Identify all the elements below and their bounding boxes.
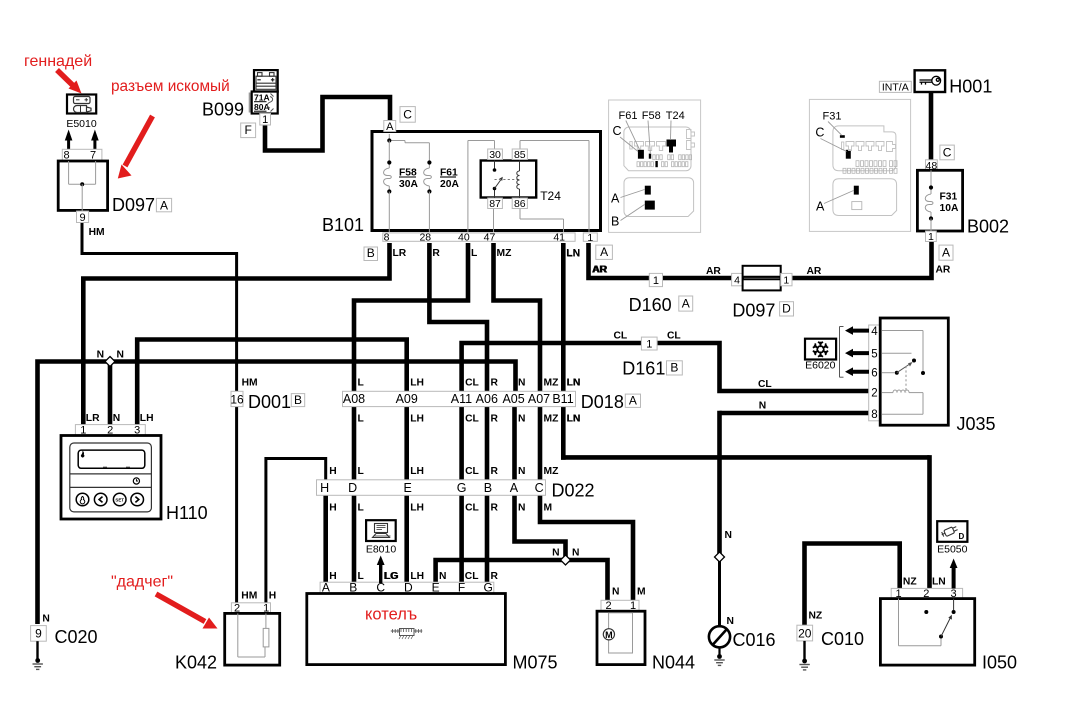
svg-text:D018: D018 bbox=[581, 392, 624, 412]
wire N J035 pin8 - C016 bbox=[720, 411, 872, 416]
thermostat H110 bbox=[75, 425, 145, 436]
wire HM D097 pin9 - D001 pin16 - K042 pin2 bbox=[82, 221, 237, 604]
wire L B101 pin40 to D001 pin A08 bbox=[354, 243, 468, 394]
svg-text:B: B bbox=[367, 246, 375, 260]
svg-text:B: B bbox=[484, 481, 492, 495]
svg-text:C020: C020 bbox=[55, 627, 98, 647]
svg-text:30: 30 bbox=[489, 149, 501, 161]
svg-text:80A: 80A bbox=[254, 102, 270, 112]
wire LR B101 pin8 to H110 pin1 bbox=[83, 243, 389, 427]
svg-text:M: M bbox=[637, 587, 646, 598]
svg-text:D: D bbox=[782, 302, 791, 316]
svg-text:LN: LN bbox=[567, 249, 581, 260]
svg-text:N044: N044 bbox=[652, 653, 695, 673]
svg-text:A: A bbox=[816, 200, 825, 214]
svg-text:M: M bbox=[544, 503, 553, 514]
svg-text:9: 9 bbox=[79, 212, 85, 224]
pin A top of B101 bbox=[384, 121, 396, 132]
svg-text:40: 40 bbox=[458, 231, 470, 243]
fuse 71A/80A in B099 bbox=[249, 93, 252, 113]
svg-text:LG: LG bbox=[385, 571, 399, 582]
svg-text:A06: A06 bbox=[476, 392, 498, 406]
B101 bottom pin strip bbox=[383, 233, 575, 241]
svg-text:10A: 10A bbox=[940, 203, 959, 214]
J035 arrows to E6020 bbox=[851, 329, 869, 333]
svg-text:K042: K042 bbox=[175, 653, 217, 673]
svg-text:CL: CL bbox=[614, 331, 628, 342]
svg-text:A11: A11 bbox=[451, 392, 472, 406]
wire MZ B101 pin47 to D001 pin A07 bbox=[494, 243, 541, 394]
svg-text:NZ: NZ bbox=[903, 576, 917, 587]
arrow from D097 pin7 to E5010 bbox=[93, 139, 96, 150]
svg-text:N: N bbox=[97, 350, 104, 361]
relay T24 bbox=[481, 161, 537, 198]
black F61 fuse target bbox=[638, 150, 644, 159]
svg-text:20A: 20A bbox=[440, 179, 459, 190]
label box B bottom of B101 bbox=[364, 247, 378, 261]
inset lower panel with A/B targets bbox=[624, 178, 694, 217]
svg-text:CL: CL bbox=[465, 571, 479, 582]
svg-text:D097: D097 bbox=[112, 195, 155, 215]
svg-text:A07: A07 bbox=[528, 392, 550, 406]
wire N D022 pin A - junction bbox=[515, 394, 566, 560]
svg-text:R: R bbox=[491, 414, 499, 425]
ignition key H001 bbox=[915, 70, 946, 92]
svg-text:A: A bbox=[386, 121, 394, 133]
svg-text:R: R bbox=[491, 503, 499, 514]
svg-text:20: 20 bbox=[798, 626, 812, 640]
wire H D022 pin H to M075 pin A bbox=[323, 481, 328, 584]
svg-text:C: C bbox=[403, 107, 412, 121]
svg-text:D: D bbox=[348, 481, 357, 495]
svg-text:N: N bbox=[42, 614, 49, 625]
svg-text:8: 8 bbox=[384, 231, 390, 243]
svg-text:G: G bbox=[457, 481, 467, 495]
svg-text:AR: AR bbox=[593, 265, 608, 276]
arrow from D097 pin8 to E5010 bbox=[67, 139, 70, 150]
internal wire pin47 to T24 pin87 bbox=[493, 209, 495, 233]
svg-text:71A: 71A bbox=[254, 93, 270, 103]
svg-text:разъем искомый: разъем искомый bbox=[111, 78, 230, 95]
svg-text:F31: F31 bbox=[940, 192, 958, 203]
internal bus from pin A to fuses bbox=[388, 134, 390, 141]
arrow M075 pin C to E8010 bbox=[379, 564, 382, 584]
svg-text:NZ: NZ bbox=[809, 611, 823, 622]
splice D160 A bbox=[649, 273, 662, 286]
svg-text:A: A bbox=[160, 198, 168, 212]
wire LH H110 pin3 to D001 pin A09 bbox=[137, 340, 407, 428]
svg-text:1: 1 bbox=[646, 339, 652, 351]
svg-text:LH: LH bbox=[410, 377, 424, 388]
svg-text:D160: D160 bbox=[629, 295, 672, 315]
svg-text:1: 1 bbox=[928, 231, 934, 243]
internal wire T24 pin85 to pin1 bbox=[519, 141, 521, 150]
svg-text:87: 87 bbox=[489, 198, 501, 210]
svg-text:N: N bbox=[113, 413, 120, 424]
wire LN B101 pin41 - D018 pin B11 - I050 pin2 bbox=[561, 243, 566, 460]
svg-text:9: 9 bbox=[35, 627, 42, 641]
svg-text:F61: F61 bbox=[619, 110, 638, 122]
burner icon in M075 bbox=[400, 629, 415, 636]
svg-text:LH: LH bbox=[410, 503, 424, 514]
label box A right of B101 bbox=[596, 245, 613, 259]
svg-text:MZ: MZ bbox=[497, 248, 512, 259]
svg-text:8: 8 bbox=[871, 409, 877, 421]
svg-text:A: A bbox=[611, 192, 620, 206]
svg-text:A05: A05 bbox=[502, 392, 524, 406]
snowflake icon E6020 bbox=[805, 339, 836, 360]
svg-text:HM: HM bbox=[89, 227, 105, 238]
svg-text:28: 28 bbox=[419, 231, 431, 243]
svg-text:A09: A09 bbox=[396, 392, 418, 406]
svg-text:LR: LR bbox=[393, 248, 407, 259]
svg-text:I050: I050 bbox=[982, 653, 1017, 673]
fuse box B002 bbox=[940, 145, 954, 160]
svg-text:1: 1 bbox=[587, 232, 593, 244]
svg-text:LH: LH bbox=[140, 413, 154, 424]
connector strip D022 bbox=[317, 480, 546, 496]
svg-text:L: L bbox=[358, 571, 364, 582]
wire CL D001 pin A11 - D161 - J035 pin2 bbox=[462, 343, 871, 394]
svg-text:C010: C010 bbox=[821, 629, 864, 649]
svg-text:F31: F31 bbox=[823, 111, 842, 123]
svg-text:B: B bbox=[611, 215, 619, 229]
internal wire T24 pin86 to pin41 bbox=[519, 209, 521, 220]
svg-text:16: 16 bbox=[230, 392, 244, 406]
sensor icon E8010 bbox=[366, 520, 396, 541]
svg-text:L: L bbox=[358, 414, 364, 425]
wire R B101 pin28 to D001 pin A06 bbox=[429, 243, 487, 394]
svg-text:N: N bbox=[518, 466, 525, 477]
svg-text:AR: AR bbox=[936, 265, 951, 276]
svg-text:A08: A08 bbox=[343, 392, 365, 406]
red arrow to E5010 bbox=[57, 70, 74, 87]
black T24 relay target bbox=[667, 140, 677, 153]
svg-text:INT/A: INT/A bbox=[882, 81, 909, 93]
fuse F61 20A bbox=[428, 163, 430, 169]
svg-text:CL: CL bbox=[465, 414, 479, 425]
svg-text:C: C bbox=[815, 126, 824, 140]
svg-text:LN: LN bbox=[932, 576, 946, 587]
wire LH D022 pin E - M075 pin D bbox=[404, 394, 409, 584]
svg-text:L: L bbox=[358, 377, 364, 388]
svg-text:SET: SET bbox=[115, 498, 124, 503]
svg-text:MZ: MZ bbox=[544, 466, 559, 477]
node N junction diamond near N044 bbox=[561, 555, 571, 565]
node N junction diamond left bbox=[105, 357, 115, 367]
svg-text:H110: H110 bbox=[166, 503, 208, 523]
fuse F58 30A bbox=[388, 141, 390, 163]
svg-text:B099: B099 bbox=[202, 100, 244, 120]
svg-text:5: 5 bbox=[871, 349, 877, 361]
connector icon E5010 bbox=[67, 95, 96, 114]
fuse F31 10A bbox=[930, 170, 932, 187]
svg-text:M: M bbox=[605, 630, 613, 640]
J035 internals bbox=[882, 330, 923, 332]
svg-text:T24: T24 bbox=[666, 110, 685, 122]
black F58 fuse target bbox=[649, 154, 651, 159]
svg-text:2: 2 bbox=[871, 388, 877, 400]
wire battery feed B099 pin1 to B101 pin A bbox=[265, 97, 390, 151]
svg-text:CL: CL bbox=[758, 379, 772, 390]
svg-text:C: C bbox=[535, 481, 544, 495]
lighter icon E5050 bbox=[937, 521, 967, 542]
svg-text:C016: C016 bbox=[733, 630, 776, 650]
svg-text:C: C bbox=[613, 124, 622, 138]
svg-text:CL: CL bbox=[667, 331, 681, 342]
wire N branch to H110 pin2 bbox=[108, 362, 113, 428]
svg-text:E5010: E5010 bbox=[66, 118, 97, 130]
wire R D022 pin B - M075 pin G bbox=[485, 394, 490, 584]
svg-text:D097: D097 bbox=[732, 301, 775, 321]
svg-text:E: E bbox=[404, 481, 412, 495]
svg-text:N: N bbox=[518, 414, 525, 425]
svg-text:AR: AR bbox=[706, 266, 721, 277]
wire H001 to B002 pin48 bbox=[929, 92, 934, 161]
svg-text:B: B bbox=[294, 393, 302, 407]
resistor element in K042 bbox=[263, 628, 269, 647]
svg-text:R: R bbox=[491, 466, 499, 477]
svg-text:MZ: MZ bbox=[544, 414, 559, 425]
svg-text:E6020: E6020 bbox=[805, 359, 836, 371]
svg-text:N: N bbox=[518, 503, 525, 514]
wire CL D022 pin G - M075 pin F bbox=[459, 394, 464, 584]
svg-text:D022: D022 bbox=[552, 481, 595, 501]
svg-text:B: B bbox=[670, 361, 678, 375]
svg-text:A: A bbox=[682, 297, 690, 311]
svg-text:R: R bbox=[491, 377, 499, 388]
svg-text:N: N bbox=[759, 401, 766, 412]
svg-text:CL: CL bbox=[465, 466, 479, 477]
svg-text:F58: F58 bbox=[642, 110, 661, 122]
svg-text:N: N bbox=[518, 377, 525, 388]
svg-text:H: H bbox=[269, 590, 276, 601]
svg-text:6: 6 bbox=[871, 368, 877, 380]
svg-text:D: D bbox=[959, 532, 965, 541]
svg-text:LH: LH bbox=[410, 466, 424, 477]
boiler unit M075 bbox=[320, 582, 494, 593]
svg-text:C: C bbox=[943, 145, 952, 159]
wire NZ C010 - I050 pin1 bbox=[805, 544, 900, 626]
svg-text:геннадей: геннадей bbox=[24, 53, 92, 70]
svg-text:41: 41 bbox=[553, 231, 565, 243]
svg-text:4: 4 bbox=[734, 274, 740, 286]
svg-text:H: H bbox=[320, 481, 329, 495]
svg-text:"дадчег": "дадчег" bbox=[111, 574, 173, 591]
svg-text:T24: T24 bbox=[540, 189, 561, 203]
svg-text:1: 1 bbox=[653, 275, 659, 287]
arrow I050 pin3 to E5050 bbox=[952, 567, 956, 589]
wire L D022 pin D - M075 pin B bbox=[352, 394, 357, 584]
svg-text:MZ: MZ bbox=[544, 377, 559, 388]
svg-text:CL: CL bbox=[465, 503, 479, 514]
svg-text:H001: H001 bbox=[949, 77, 992, 97]
svg-text:L: L bbox=[358, 466, 364, 477]
svg-text:R: R bbox=[491, 571, 499, 582]
svg-text:F: F bbox=[244, 123, 251, 137]
svg-text:N: N bbox=[117, 350, 124, 361]
black C fuse target bbox=[846, 150, 851, 159]
svg-text:4: 4 bbox=[871, 326, 878, 338]
svg-text:47: 47 bbox=[484, 231, 496, 243]
node N junction diamond above C016 bbox=[715, 552, 725, 562]
label box C top of B101 bbox=[400, 107, 415, 123]
svg-text:D001: D001 bbox=[248, 392, 291, 412]
svg-text:LN: LN bbox=[567, 377, 581, 388]
wire H K042 pin1 - D022 pin H bbox=[266, 459, 326, 605]
svg-text:J035: J035 bbox=[957, 414, 996, 434]
svg-text:H: H bbox=[329, 571, 336, 582]
inset locator for B002 fuse F31 bbox=[809, 99, 910, 231]
wire MZ/M D022 pin C - N044 pin1 bbox=[540, 394, 633, 604]
svg-text:85: 85 bbox=[514, 149, 526, 161]
svg-text:1: 1 bbox=[262, 114, 268, 126]
svg-text:HM: HM bbox=[242, 377, 258, 388]
connector strip D001 B / D018 A bbox=[343, 391, 576, 406]
svg-text:котелъ: котелъ bbox=[365, 606, 417, 624]
svg-text:L: L bbox=[358, 503, 364, 514]
relay J035 bbox=[869, 325, 881, 421]
svg-text:N: N bbox=[727, 616, 734, 627]
svg-text:1: 1 bbox=[783, 274, 789, 286]
wire AR B101 pin1 - D160 - D097/D - B002 pin1 bbox=[589, 242, 932, 278]
svg-text:LN: LN bbox=[567, 414, 581, 425]
svg-text:E8010: E8010 bbox=[366, 544, 397, 556]
svg-text:A: A bbox=[942, 246, 950, 260]
black F31 dash target bbox=[840, 135, 845, 138]
svg-text:N: N bbox=[725, 530, 732, 541]
svg-text:M075: M075 bbox=[513, 653, 558, 673]
svg-text:N: N bbox=[572, 548, 579, 559]
wire N M075 pin E - junction - N044 pin2 bbox=[436, 560, 608, 604]
svg-text:30A: 30A bbox=[399, 179, 418, 190]
svg-text:A: A bbox=[629, 394, 637, 408]
svg-text:86: 86 bbox=[514, 198, 526, 210]
svg-text:A: A bbox=[510, 481, 519, 495]
svg-text:H: H bbox=[329, 503, 336, 514]
internal wire pin40 to T24 pin30 bbox=[467, 141, 469, 233]
svg-text:L: L bbox=[471, 248, 477, 259]
svg-text:B002: B002 bbox=[967, 217, 1009, 237]
svg-text:N: N bbox=[612, 587, 619, 598]
connector D097 D bbox=[732, 273, 743, 285]
svg-text:A: A bbox=[600, 245, 608, 259]
svg-text:CL: CL bbox=[465, 377, 479, 388]
splice D161 B bbox=[641, 337, 657, 350]
svg-text:R: R bbox=[432, 248, 440, 259]
svg-text:D161: D161 bbox=[622, 359, 665, 379]
svg-text:HM: HM bbox=[241, 590, 257, 601]
svg-text:B101: B101 bbox=[322, 215, 364, 235]
svg-text:N: N bbox=[552, 548, 559, 559]
svg-text:H: H bbox=[329, 466, 336, 477]
svg-text:LH: LH bbox=[410, 414, 424, 425]
svg-text:LR: LR bbox=[86, 413, 100, 424]
svg-text:N: N bbox=[439, 571, 446, 582]
red arrow to K042 bbox=[156, 594, 205, 622]
svg-text:E5050: E5050 bbox=[937, 544, 968, 556]
connector D097 A bbox=[62, 149, 102, 161]
red arrow to D097 bbox=[125, 116, 153, 166]
svg-text:AR: AR bbox=[807, 266, 822, 277]
wire N C020 - junction - D001 pin A05 bbox=[38, 362, 516, 625]
inset locator for B101 fuses F61 F58 T24 bbox=[609, 100, 701, 232]
svg-text:B11: B11 bbox=[552, 392, 573, 406]
svg-text:LH: LH bbox=[410, 571, 424, 582]
